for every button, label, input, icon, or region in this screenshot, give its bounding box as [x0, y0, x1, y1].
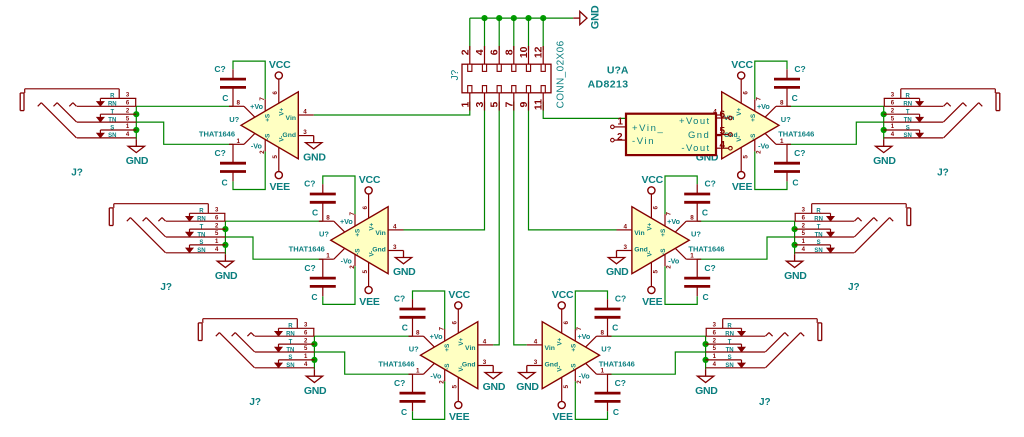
svg-text:C: C [702, 208, 708, 218]
svg-text:2: 2 [666, 265, 673, 269]
svg-text:+Vo: +Vo [757, 102, 770, 111]
svg-text:3: 3 [126, 93, 130, 99]
U? pin 7 (+S) [665, 211, 673, 226]
svg-text:VCC: VCC [642, 174, 664, 186]
junction on GND bus (pin 10) [525, 15, 531, 21]
wire +out loop to +S pin of U? [575, 291, 607, 329]
svg-text:C: C [222, 93, 228, 103]
wire -out loop to -S pin of U? [233, 151, 265, 189]
svg-text:U?: U? [409, 345, 419, 354]
U? pin 5 (V-) [272, 147, 279, 171]
svg-text:SN: SN [197, 248, 205, 254]
svg-text:V-: V- [736, 136, 743, 142]
svg-text:VCC: VCC [269, 59, 291, 71]
svg-text:3: 3 [215, 208, 219, 214]
svg-text:5: 5 [743, 155, 750, 159]
svg-text:2: 2 [459, 49, 471, 55]
svg-text:C?: C? [215, 148, 226, 158]
svg-text:VEE: VEE [732, 181, 753, 193]
svg-text:5: 5 [802, 231, 806, 237]
svg-text:V+: V+ [557, 337, 564, 345]
svg-text:V+: V+ [279, 108, 286, 116]
svg-text:TN: TN [108, 117, 116, 123]
power VEE (U?) [732, 172, 753, 194]
svg-text:S: S [906, 125, 910, 131]
U? pin 4 (Vin) [527, 338, 542, 345]
svg-text:6: 6 [720, 110, 726, 121]
wire -out net (jack TN to cap node, stepped) [314, 352, 412, 374]
svg-text:J?: J? [249, 397, 261, 408]
junction on GND bus (pin 6) [496, 15, 502, 21]
capacitor C? lead (+rail) U? [412, 299, 414, 336]
U?A pin 5 (Gnd) [716, 126, 732, 137]
U? pin 7 (+S) [259, 97, 266, 112]
capacitor C? (+out, U?) [304, 179, 336, 218]
U? pin 4 (Vin) [617, 223, 632, 230]
svg-text:C?: C? [304, 179, 315, 189]
wire jack ground drop [705, 336, 707, 369]
power VCC (U?) [552, 289, 574, 309]
svg-text:AD8213: AD8213 [588, 78, 629, 90]
U? pin 7 (+S) [439, 326, 446, 341]
svg-text:VEE: VEE [359, 296, 380, 308]
svg-text:C?: C? [794, 64, 805, 74]
svg-text:4: 4 [713, 362, 717, 368]
svg-text:4: 4 [534, 338, 538, 345]
U? pin 6 (V+) [741, 79, 749, 103]
op-amp U? THAT1646 body [331, 207, 388, 274]
U? pin 8 (+Out) [765, 99, 791, 117]
svg-text:GND: GND [126, 155, 149, 167]
svg-text:T: T [110, 110, 114, 116]
svg-text:RN: RN [903, 102, 912, 108]
svg-text:TN: TN [904, 117, 912, 123]
capacitor C? lead (-rail) U? [322, 259, 324, 296]
svg-text:2: 2 [126, 108, 130, 114]
svg-text:T: T [817, 224, 821, 230]
capacitor C? lead (-rail) U? [232, 144, 234, 181]
svg-text:C?: C? [705, 179, 716, 189]
svg-text:-S: -S [750, 134, 757, 140]
ground at U? pin 3 [483, 366, 506, 394]
U? pin 1 (-Out) [229, 133, 255, 144]
svg-text:4: 4 [215, 247, 219, 253]
svg-text:C?: C? [704, 263, 715, 273]
wire +out loop to +S pin of U? [665, 176, 697, 214]
junction at jack S row [792, 242, 798, 248]
svg-text:GND: GND [784, 270, 807, 282]
capacitor C? (+out, U?) [684, 179, 716, 218]
wire jack ground drop [224, 221, 226, 254]
wire +out loop to +S pin of U? [755, 61, 787, 99]
svg-text:+Vout: +Vout [679, 116, 711, 127]
svg-text:C?: C? [394, 294, 405, 304]
svg-text:J?: J? [937, 167, 949, 178]
svg-text:Gnd: Gnd [688, 130, 710, 141]
svg-text:3: 3 [713, 323, 717, 329]
svg-text:8: 8 [503, 49, 515, 55]
U? pin 3 (Gnd) [706, 129, 721, 136]
svg-text:7: 7 [259, 97, 266, 101]
capacitor C? lead (+rail) U? [696, 184, 698, 221]
svg-text:C?: C? [214, 64, 225, 74]
wire +out loop to +S pin of U? [413, 291, 445, 329]
wire connector pin 7 to U? (bottom-right) Vin [514, 102, 527, 345]
U? pin 5 (V-) [562, 377, 570, 401]
wire jack ground drop [883, 106, 885, 139]
wire connector top pin 6 to bus [498, 18, 500, 50]
svg-text:S: S [817, 240, 821, 246]
power VEE (U?) [642, 286, 663, 308]
svg-text:V-: V- [557, 366, 564, 372]
svg-text:+Vo: +Vo [577, 332, 590, 341]
svg-text:2: 2 [756, 150, 763, 154]
svg-text:2: 2 [891, 108, 895, 114]
power VEE (U?) [449, 401, 470, 423]
svg-text:6: 6 [215, 215, 219, 221]
svg-text:+S: +S [444, 344, 451, 352]
svg-text:2: 2 [439, 380, 446, 384]
U? pin 1 (-Out) [586, 363, 612, 374]
svg-text:1: 1 [891, 124, 895, 130]
svg-text:3: 3 [534, 359, 538, 366]
value CONN_02X06 [555, 40, 566, 108]
svg-text:4: 4 [891, 132, 895, 138]
svg-text:R: R [816, 209, 821, 215]
capacitor C? (-out, U?) [595, 378, 626, 417]
wire -out net (jack TN to cap node, stepped) [787, 122, 884, 144]
U? pin 1 (-Out) [409, 363, 435, 374]
svg-text:+Vin_: +Vin_ [632, 123, 664, 134]
ground at jack [784, 254, 807, 282]
power VCC (U?) [269, 59, 291, 79]
svg-text:RN: RN [814, 217, 823, 223]
wire connector top pin 12 to bus [542, 18, 544, 50]
U? pin 3 (Gnd) [617, 244, 632, 251]
svg-text:-S: -S [444, 364, 451, 370]
wire +out loop to +S pin of U? [323, 176, 355, 214]
svg-text:7: 7 [756, 97, 763, 101]
svg-text:C: C [312, 208, 318, 218]
junction at jack S row [881, 127, 887, 133]
svg-text:V+: V+ [646, 222, 653, 230]
wire -out net (jack TN to cap node, stepped) [136, 122, 233, 144]
U?A pin 1 (+Vin) [611, 117, 626, 129]
svg-text:8: 8 [326, 214, 330, 221]
U? pin 8 (+Out) [409, 329, 435, 347]
power VEE (U?) [552, 401, 573, 423]
junction at jack T row [881, 111, 887, 117]
U? pin 3 (Gnd) [527, 359, 542, 366]
op-amp U? THAT1646 body [632, 207, 689, 274]
junction at jack T row [133, 111, 139, 117]
svg-text:5: 5 [720, 126, 726, 137]
svg-text:C: C [703, 292, 709, 302]
U? pin 8 (+Out) [586, 329, 612, 347]
svg-text:C: C [613, 407, 619, 417]
connector J? CONN_02X06 body [462, 46, 551, 93]
svg-text:5: 5 [452, 384, 459, 388]
capacitor C? (-out, U?) [215, 148, 246, 187]
svg-text:THAT1646: THAT1646 [378, 360, 414, 369]
svg-text:8: 8 [416, 329, 420, 336]
svg-text:C: C [612, 323, 618, 333]
U? pin 1 (-Out) [765, 133, 791, 144]
svg-text:1: 1 [215, 239, 219, 245]
svg-text:3: 3 [483, 359, 487, 366]
svg-text:T: T [906, 110, 910, 116]
wire GND bus at top [470, 17, 573, 19]
svg-text:J?: J? [759, 397, 771, 408]
wire -out loop to -S pin of U? [323, 266, 355, 304]
svg-text:8: 8 [601, 329, 605, 336]
connector J? (TRS jack) [198, 319, 314, 369]
svg-text:RN: RN [197, 217, 206, 223]
power VEE (U?) [269, 172, 290, 194]
svg-text:GND: GND [873, 155, 896, 167]
junction at jack S row [703, 357, 709, 363]
wire connector pin 9 to U? (mid-right) Vin [529, 102, 617, 230]
svg-text:5: 5 [215, 231, 219, 237]
svg-text:C?: C? [304, 263, 315, 273]
svg-text:3: 3 [393, 244, 397, 251]
svg-text:R: R [288, 324, 293, 330]
svg-text:R: R [727, 324, 732, 330]
U?A pin 2 (-Vin) [611, 132, 626, 143]
U? pin 5 (V-) [362, 262, 369, 286]
U? pin 6 (V+) [651, 194, 659, 218]
ground at U? pin 3 [393, 251, 416, 279]
U? pin 4 (Vin) [298, 108, 313, 115]
svg-text:-Vout: -Vout [681, 143, 710, 154]
svg-text:5: 5 [713, 346, 717, 352]
svg-text:V+: V+ [368, 222, 375, 230]
ground at U? pin 3 [303, 136, 326, 164]
svg-text:J?: J? [450, 69, 461, 80]
svg-text:C: C [792, 93, 798, 103]
svg-text:1: 1 [601, 368, 605, 375]
junction on GND bus (pin 8) [511, 15, 517, 21]
svg-text:1: 1 [690, 253, 694, 260]
svg-text:-Vo: -Vo [758, 141, 770, 150]
connector J? (TRS jack) [706, 319, 822, 369]
capacitor C? (-out, U?) [304, 263, 335, 302]
junction at jack T row [222, 226, 228, 232]
svg-text:1: 1 [713, 354, 717, 360]
svg-text:V-: V- [646, 251, 653, 257]
svg-text:6: 6 [563, 320, 570, 324]
svg-text:6: 6 [802, 215, 806, 221]
svg-text:GND: GND [606, 266, 629, 278]
op-amp U? THAT1646 body [421, 322, 478, 389]
capacitor C? lead (+rail) U? [322, 184, 324, 221]
svg-text:7: 7 [439, 326, 446, 330]
ground at U? pin 3 [516, 366, 539, 394]
power VCC (U?) [448, 289, 470, 309]
svg-text:THAT1646: THAT1646 [688, 245, 724, 254]
svg-text:3: 3 [891, 93, 895, 99]
U? pin 8 (+Out) [319, 214, 345, 232]
svg-text:+Vo: +Vo [430, 332, 443, 341]
U? pin 8 (+Out) [229, 99, 255, 117]
U? pin name labels [340, 217, 386, 265]
capacitor C? (+out, U?) [595, 294, 627, 333]
svg-text:+S: +S [265, 114, 272, 122]
svg-text:+Vo: +Vo [340, 217, 353, 226]
svg-text:SN: SN [286, 363, 294, 369]
svg-text:4: 4 [126, 132, 130, 138]
ground at jack [126, 139, 149, 167]
svg-text:+S: +S [750, 114, 757, 122]
svg-text:GND: GND [304, 385, 327, 397]
svg-text:3: 3 [303, 129, 307, 136]
U? pin 6 (V+) [562, 309, 570, 333]
svg-text:5: 5 [304, 346, 308, 352]
wire -out loop to -S pin of U? [413, 381, 445, 419]
svg-text:GND: GND [303, 151, 326, 163]
svg-text:1: 1 [802, 239, 806, 245]
U? pin 3 (Gnd) [478, 359, 493, 366]
wire +out net (jack RN to cap node) [787, 105, 884, 107]
svg-text:C: C [222, 177, 228, 187]
svg-text:-Vo: -Vo [668, 256, 680, 265]
ground at U? pin 3 [606, 251, 629, 279]
U? pin name labels [430, 332, 476, 381]
junction at jack S row [222, 242, 228, 248]
svg-text:J?: J? [160, 282, 172, 293]
svg-text:R: R [110, 94, 115, 100]
svg-text:2: 2 [215, 223, 219, 229]
svg-text:GND: GND [215, 270, 238, 282]
svg-text:Vin: Vin [465, 345, 475, 352]
wire connector pin 3 to U? (mid-left) Vin [404, 102, 485, 230]
svg-text:Vin: Vin [286, 115, 296, 122]
svg-text:Vin: Vin [545, 345, 555, 352]
wire connector top pin 4 to bus [484, 18, 486, 50]
svg-text:4: 4 [474, 49, 486, 55]
U? pin 3 (Gnd) [298, 129, 313, 136]
capacitor C? (+out, U?) [774, 64, 806, 103]
junction on GND bus (pin 4) [481, 15, 487, 21]
capacitor C? lead (+rail) U? [786, 69, 788, 106]
svg-text:12: 12 [533, 46, 545, 58]
svg-text:6: 6 [489, 49, 501, 55]
junction at jack S row [133, 127, 139, 133]
wire -out loop to -S pin of U? [665, 266, 697, 304]
svg-text:S: S [199, 240, 203, 246]
svg-text:-Vo: -Vo [579, 371, 591, 380]
svg-text:V-: V- [368, 251, 375, 257]
junction at jack T row [703, 341, 709, 347]
op-amp U? THAT1646 body [722, 92, 779, 159]
svg-text:RN: RN [108, 102, 117, 108]
svg-text:-Vo: -Vo [341, 256, 353, 265]
wire jack ground drop [794, 221, 796, 254]
svg-text:5: 5 [362, 269, 369, 273]
power VCC (U?) [731, 59, 753, 79]
U? pin 1 (-Out) [675, 248, 701, 259]
GND arrow (top right) [573, 5, 601, 29]
capacitor C? lead (-rail) U? [696, 259, 698, 296]
svg-text:U?A: U?A [607, 65, 629, 77]
svg-text:8: 8 [236, 99, 240, 106]
svg-text:J?: J? [848, 282, 860, 293]
U?A pin 4 (-Vout) [716, 140, 732, 151]
svg-text:+S: +S [660, 229, 667, 237]
wire +out net (jack RN to cap node) [136, 105, 233, 107]
svg-text:C: C [311, 292, 317, 302]
U? pin 6 (V+) [362, 194, 369, 218]
U? pin 4 (Vin) [706, 108, 721, 115]
U? pin name labels [724, 102, 770, 150]
U? pin 8 (+Out) [675, 214, 701, 232]
svg-text:S: S [288, 355, 292, 361]
capacitor C? lead (+rail) U? [232, 69, 234, 106]
svg-text:4: 4 [720, 140, 726, 151]
svg-text:+Vo: +Vo [667, 217, 680, 226]
svg-text:U?: U? [691, 230, 701, 239]
U?A pin 6 (+Vout) [716, 110, 732, 121]
wire connector pin 1 to U? (top-left) Vin [314, 102, 470, 116]
U? pin 2 (-S) [349, 254, 356, 268]
U? pin 2 (-S) [665, 254, 673, 268]
reference J? (connector) [450, 69, 461, 80]
svg-text:6: 6 [891, 101, 895, 107]
wire +out net (jack RN to cap node) [697, 220, 794, 222]
svg-text:Vin: Vin [634, 230, 644, 237]
svg-text:T: T [289, 339, 293, 345]
svg-text:C?: C? [615, 378, 626, 388]
svg-text:CONN_02X06: CONN_02X06 [555, 40, 566, 108]
svg-text:VCC: VCC [448, 289, 470, 301]
connector J? (TRS jack) [795, 204, 911, 254]
svg-text:THAT1646: THAT1646 [778, 130, 814, 139]
svg-text:6: 6 [304, 330, 308, 336]
svg-text:10: 10 [518, 46, 530, 58]
capacitor C? (+out, U?) [394, 294, 426, 333]
svg-text:2: 2 [802, 223, 806, 229]
U? pin 7 (+S) [575, 326, 583, 341]
op-amp U? THAT1646 body [542, 322, 599, 389]
wire +out net (jack RN to cap node) [608, 335, 706, 337]
U? pin 6 (V+) [452, 309, 459, 333]
svg-text:5: 5 [653, 269, 660, 273]
svg-text:1: 1 [416, 368, 420, 375]
U? pin 6 (V+) [272, 79, 279, 103]
svg-text:R: R [906, 94, 911, 100]
svg-text:1: 1 [126, 124, 130, 130]
svg-text:VEE: VEE [552, 411, 573, 423]
capacitor C? (-out, U?) [774, 148, 805, 187]
svg-text:VCC: VCC [731, 59, 753, 71]
svg-text:C: C [401, 407, 407, 417]
svg-text:C: C [402, 323, 408, 333]
wire jack ground drop [313, 336, 315, 369]
svg-text:+Vo: +Vo [250, 102, 263, 111]
svg-text:SN: SN [108, 133, 116, 139]
wire -out net (jack TN to cap node, stepped) [225, 237, 322, 259]
U? pin name labels [250, 102, 296, 150]
svg-text:6: 6 [653, 205, 660, 209]
svg-text:S: S [728, 355, 732, 361]
power VEE (U?) [359, 286, 380, 308]
svg-text:6: 6 [713, 330, 717, 336]
svg-text:V-: V- [458, 366, 465, 372]
connector J? (TRS jack) [20, 89, 136, 139]
wire +out net (jack RN to cap node) [314, 335, 412, 337]
wire jack ground drop [135, 106, 137, 139]
svg-text:Vin: Vin [375, 230, 385, 237]
